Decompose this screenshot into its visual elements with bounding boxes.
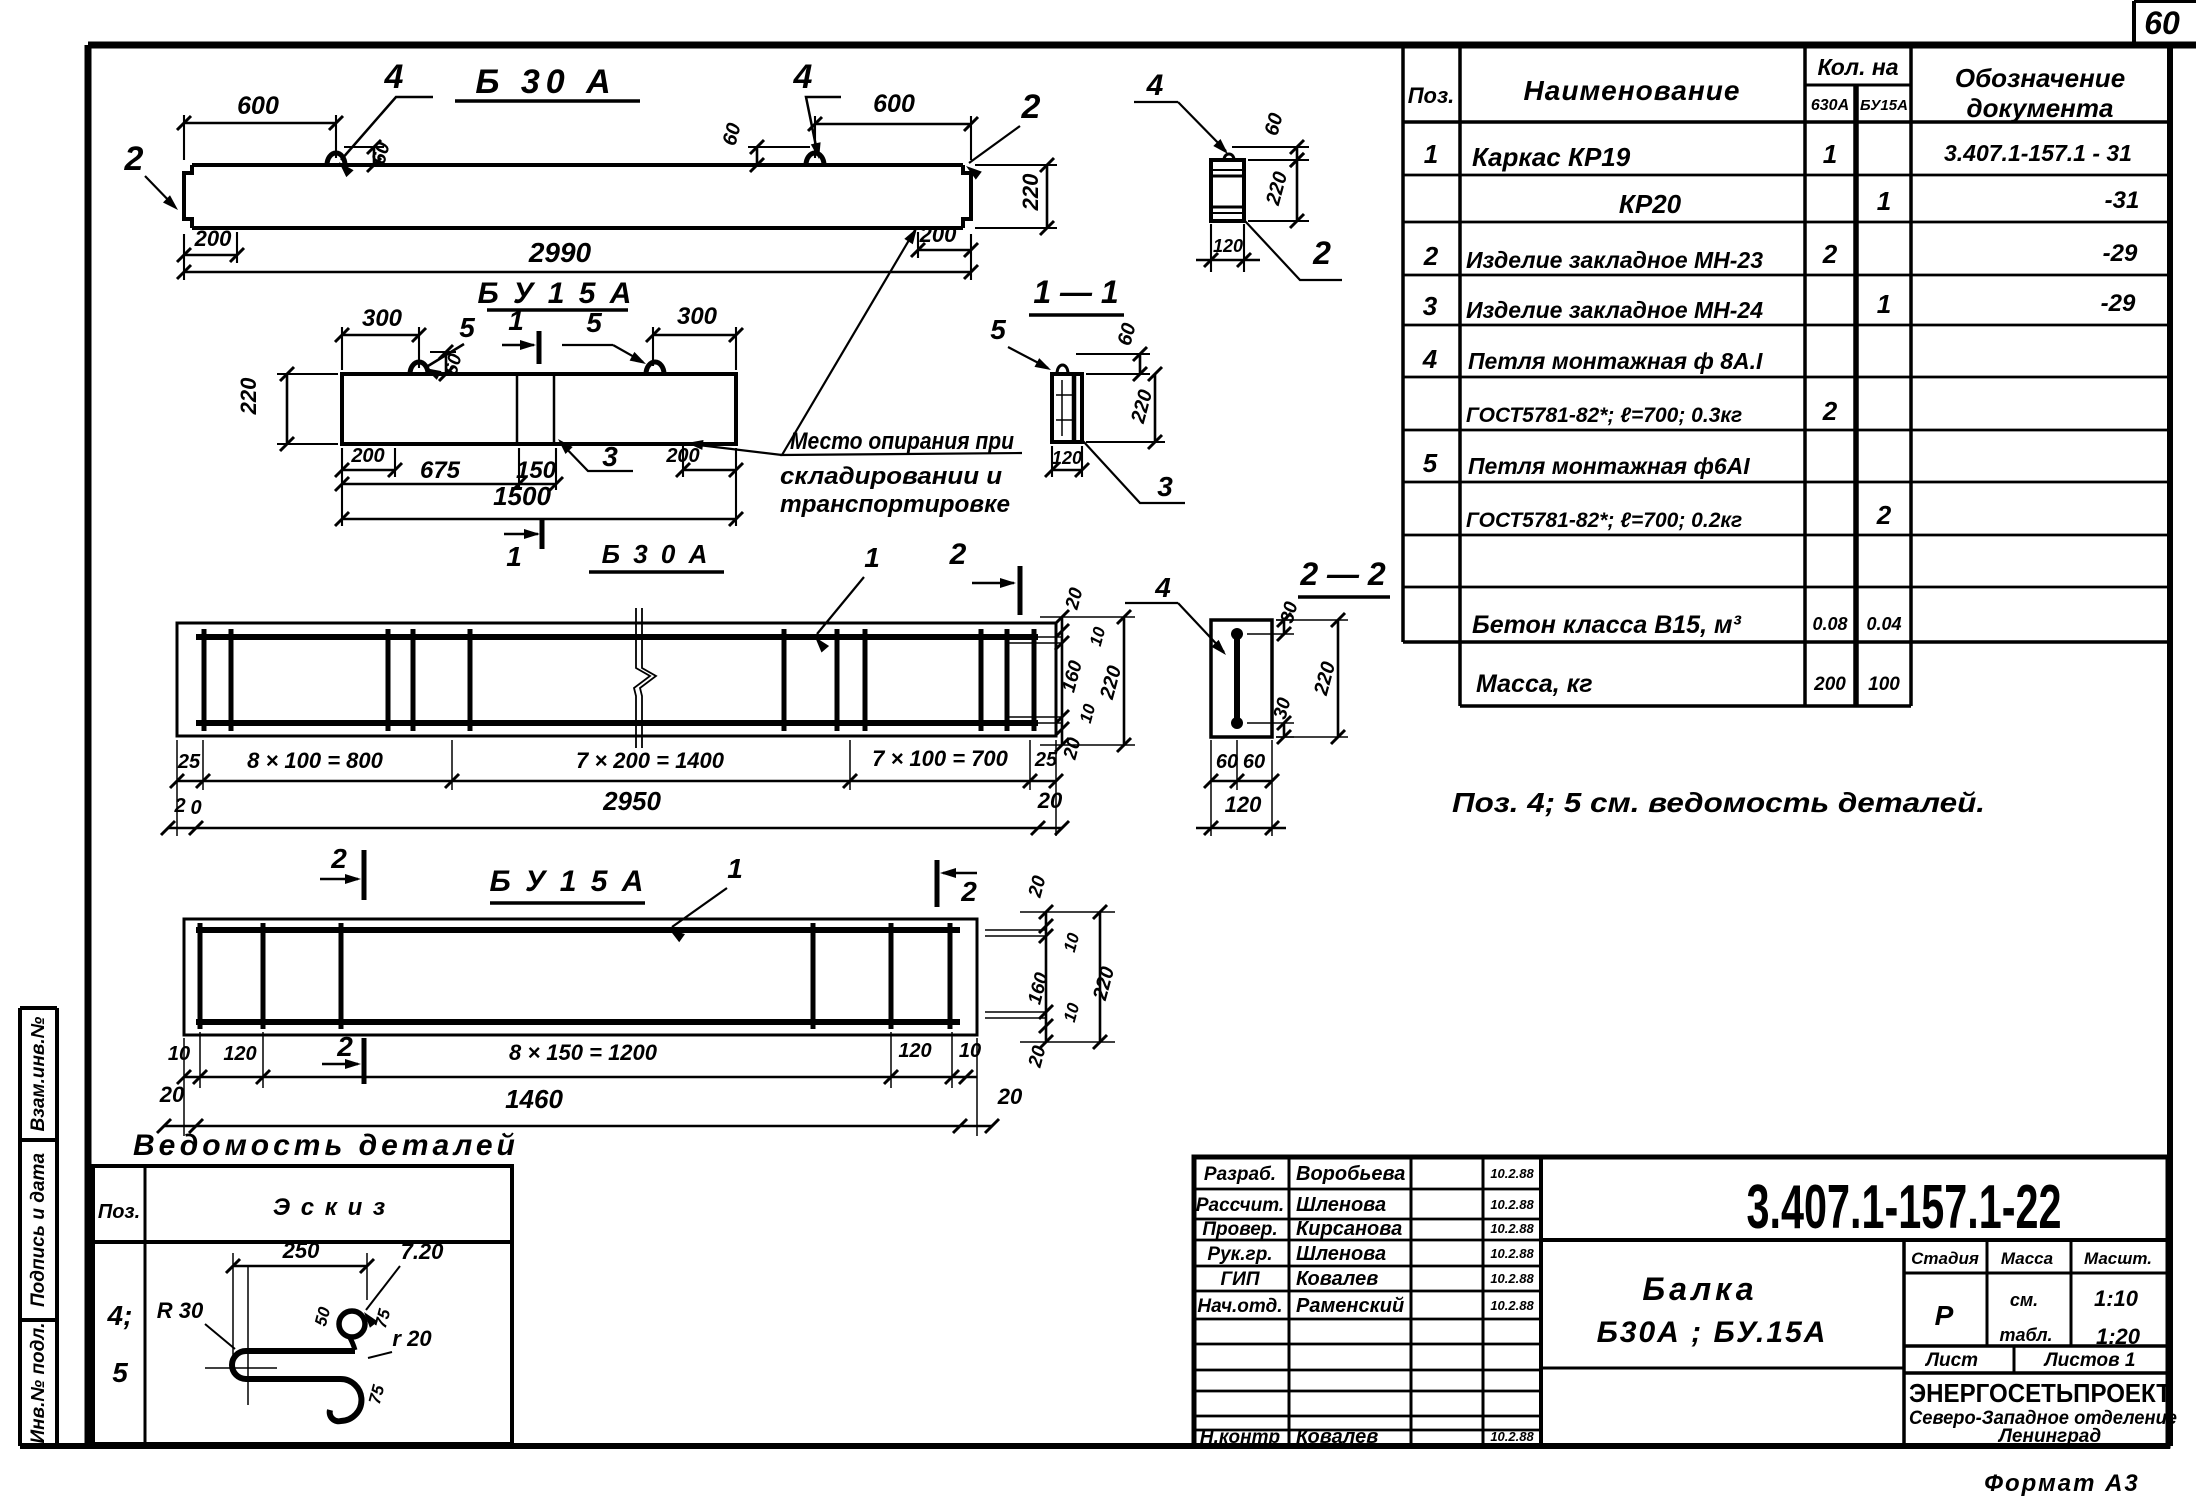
title block vertical stage block	[1902, 1240, 1906, 1446]
svg-text:10.2.88: 10.2.88	[1490, 1166, 1534, 1181]
page number box top-right	[2134, 0, 2196, 3]
lifting loop 4 (right) on Б30А	[806, 153, 824, 165]
svg-text:Масшт.: Масшт.	[2084, 1249, 2152, 1268]
section Б30А end (small rect top-right)	[1211, 160, 1244, 221]
title block row line 9	[1194, 1415, 1541, 1418]
list row bottom line	[1904, 1371, 2168, 1375]
spec table vertical: left edge	[1401, 45, 1405, 642]
svg-text:5: 5	[586, 307, 602, 338]
svg-text:100: 100	[1868, 674, 1900, 695]
svg-text:1: 1	[864, 542, 880, 573]
svg-text:7 × 200 = 1400: 7 × 200 = 1400	[576, 748, 725, 773]
svg-text:Э с к и з: Э с к и з	[273, 1194, 387, 1221]
list row divider	[2013, 1346, 2016, 1373]
svg-text:транспортировке: транспортировке	[780, 491, 1010, 518]
beam БУ15А outline (side view)	[342, 374, 736, 444]
sketch centerline horizontal	[205, 1367, 277, 1369]
svg-text:2: 2	[1423, 241, 1439, 271]
svg-text:200: 200	[1813, 674, 1846, 695]
svg-text:Б 30 А: Б 30 А	[475, 63, 616, 101]
svg-text:Бетон класса В15, м³: Бетон класса В15, м³	[1472, 611, 1741, 639]
left strip: divider 2	[20, 1318, 57, 1322]
svg-text:2 — 2: 2 — 2	[1299, 556, 1386, 592]
svg-text:Рассчит.: Рассчит.	[1196, 1195, 1284, 1216]
svg-text:2: 2	[330, 843, 347, 874]
svg-text:2: 2	[1021, 88, 1041, 126]
svg-text:Кирсанова: Кирсанова	[1296, 1218, 1402, 1240]
section 2-2 body	[1211, 620, 1272, 737]
top bar of cage КР19	[196, 634, 1038, 640]
vedomost table frame	[93, 1166, 512, 1444]
svg-text:Шленова: Шленова	[1296, 1194, 1386, 1216]
svg-text:Формат А3: Формат А3	[1984, 1470, 2140, 1497]
title block vertical date end	[1539, 1157, 1543, 1446]
svg-text:-29: -29	[2103, 240, 2138, 267]
sketch centerline vertical	[247, 1267, 249, 1405]
svg-text:10.2.88: 10.2.88	[1490, 1197, 1534, 1212]
svg-text:Лист: Лист	[1924, 1350, 1978, 1371]
svg-text:60: 60	[1216, 751, 1238, 773]
spec table row line 7	[1403, 481, 2170, 484]
svg-text:8 × 150 = 1200: 8 × 150 = 1200	[509, 1040, 658, 1065]
svg-text:Изделие закладное МН-24: Изделие закладное МН-24	[1466, 297, 1763, 323]
svg-text:4: 4	[793, 58, 813, 96]
note underline shelf	[780, 453, 1022, 455]
svg-text:Разраб.: Разраб.	[1204, 1164, 1276, 1185]
svg-text:Взам.инв.№: Взам.инв.№	[28, 1016, 49, 1131]
svg-text:4;: 4;	[107, 1300, 133, 1331]
svg-text:Воробьева: Воробьева	[1296, 1163, 1405, 1185]
svg-text:1: 1	[727, 853, 743, 884]
stirrups КР20	[198, 923, 203, 1029]
svg-text:10.2.88: 10.2.88	[1490, 1271, 1534, 1286]
svg-text:Н.контр: Н.контр	[1200, 1427, 1280, 1448]
svg-text:ГОСТ5781-82*; ℓ=700; 0.2кг: ГОСТ5781-82*; ℓ=700; 0.2кг	[1466, 509, 1742, 532]
svg-text:2: 2	[949, 538, 967, 571]
svg-text:7.20: 7.20	[401, 1239, 445, 1264]
svg-text:Петля монтажная ф6АI: Петля монтажная ф6АI	[1468, 453, 1750, 479]
svg-text:20: 20	[1037, 788, 1063, 813]
svg-text:1:10: 1:10	[2094, 1286, 2139, 1311]
svg-text:1: 1	[1823, 139, 1837, 169]
svg-text:Б30А ; БУ.15А: Б30А ; БУ.15А	[1597, 1316, 1828, 1349]
lifting loop 5 (left) on БУ15А	[410, 362, 428, 374]
svg-text:Подпись и дата: Подпись и дата	[28, 1153, 49, 1307]
svg-text:4: 4	[384, 58, 404, 96]
svg-text:3.407.1-157.1 - 31: 3.407.1-157.1 - 31	[1944, 140, 2132, 166]
title block row line 4	[1194, 1290, 1541, 1293]
svg-text:1: 1	[1877, 186, 1891, 216]
svg-text:4: 4	[1422, 344, 1438, 374]
svg-text:1: 1	[506, 541, 522, 572]
svg-text:120: 120	[898, 1040, 931, 1062]
svg-text:2: 2	[1876, 500, 1892, 530]
svg-text:0.08: 0.08	[1812, 614, 1847, 634]
svg-text:Изделие закладное МН-23: Изделие закладное МН-23	[1466, 247, 1763, 273]
svg-text:1: 1	[508, 305, 524, 336]
svg-text:120: 120	[223, 1043, 256, 1065]
leader to Б30А support point	[782, 230, 915, 455]
svg-text:25: 25	[177, 751, 201, 773]
svg-text:200: 200	[350, 445, 384, 467]
title block row line 10	[1194, 1429, 1541, 1432]
svg-text:1500: 1500	[493, 481, 551, 511]
spec table row line 10	[1403, 640, 2170, 644]
svg-text:Ковалев: Ковалев	[1296, 1426, 1378, 1448]
svg-text:7 × 100 = 700: 7 × 100 = 700	[872, 746, 1009, 771]
stage header line	[1904, 1272, 2168, 1275]
svg-text:1460: 1460	[505, 1084, 563, 1114]
svg-text:Ковалев: Ковалев	[1296, 1268, 1378, 1290]
svg-text:Инв.№ подл.: Инв.№ подл.	[28, 1322, 49, 1443]
svg-text:300: 300	[362, 305, 403, 332]
title block row line 2	[1194, 1239, 1541, 1242]
svg-text:2: 2	[173, 795, 185, 817]
bottom bar of cage КР19	[196, 720, 1038, 726]
svg-text:ГИП: ГИП	[1221, 1269, 1260, 1290]
svg-text:Рук.гр.: Рук.гр.	[1207, 1244, 1272, 1265]
left strip: outer line	[18, 1008, 22, 1446]
svg-text:5: 5	[459, 312, 475, 343]
spec table row line 2	[1403, 221, 2170, 224]
svg-text:Б У 1 5 А: Б У 1 5 А	[490, 865, 647, 898]
svg-text:Б У 1 5 А: Б У 1 5 А	[478, 277, 635, 310]
title block vertical sign/date	[1482, 1157, 1485, 1446]
top bar of cage КР20	[196, 927, 960, 933]
sheet frame: bottom border	[20, 1443, 2170, 1449]
svg-text:3.407.1-157.1-22: 3.407.1-157.1-22	[1747, 1173, 2062, 1242]
svg-text:1: 1	[1877, 289, 1891, 319]
svg-text:5: 5	[990, 314, 1006, 345]
svg-text:120: 120	[1225, 792, 1262, 817]
svg-text:1 — 1: 1 — 1	[1033, 274, 1118, 310]
stirrups КР19	[202, 629, 207, 731]
spec table bottom of Масса row	[1460, 704, 1911, 708]
svg-text:675: 675	[420, 457, 461, 484]
svg-text:220: 220	[236, 377, 261, 415]
svg-text:Поз.: Поз.	[1408, 83, 1455, 108]
svg-text:10.2.88: 10.2.88	[1490, 1429, 1534, 1444]
svg-text:4: 4	[1146, 69, 1164, 102]
svg-text:630А: 630А	[1811, 97, 1849, 114]
svg-text:200: 200	[194, 226, 232, 251]
svg-text:8 × 100 = 800: 8 × 100 = 800	[247, 748, 384, 773]
svg-text:1: 1	[1424, 139, 1438, 169]
title block vertical name/sign	[1410, 1157, 1413, 1446]
lifting loop 5 (right) on БУ15А	[646, 362, 664, 374]
svg-text:20: 20	[159, 1082, 185, 1107]
title block outer frame	[1194, 1157, 2168, 1446]
svg-text:5: 5	[1423, 448, 1438, 478]
svg-text:ГОСТ5781-82*; ℓ=700; 0.3кг: ГОСТ5781-82*; ℓ=700; 0.3кг	[1466, 404, 1742, 427]
svg-text:3: 3	[1423, 291, 1438, 321]
svg-text:60: 60	[1243, 751, 1265, 773]
svg-text:документа: документа	[1967, 93, 2114, 123]
svg-text:КР20: КР20	[1619, 189, 1682, 219]
svg-text:2: 2	[1822, 396, 1838, 426]
svg-text:ЭНЕРГОСЕТЬПРОЕКТ: ЭНЕРГОСЕТЬПРОЕКТ	[1909, 1378, 2171, 1408]
svg-text:-31: -31	[2105, 187, 2140, 214]
sheet frame: top border	[88, 42, 2196, 49]
break symbol	[634, 608, 656, 748]
spec table row line 3	[1403, 274, 2170, 277]
svg-text:220: 220	[1018, 173, 1043, 211]
svg-text:250: 250	[282, 1238, 320, 1263]
svg-text:складировании и: складировании и	[780, 463, 1002, 490]
svg-text:2: 2	[124, 140, 144, 178]
stage vertical 2	[2070, 1240, 2073, 1346]
svg-text:Кол. на: Кол. на	[1817, 54, 1898, 80]
vedomost header line	[93, 1240, 512, 1244]
leader to БУ15А support point	[690, 444, 782, 455]
spec table vertical: Поз/Наименование	[1458, 45, 1462, 706]
title block row line 1	[1194, 1218, 1541, 1221]
svg-text:r 20: r 20	[392, 1326, 432, 1351]
svg-text:Наименование: Наименование	[1524, 75, 1741, 106]
svg-text:см.: см.	[2010, 1290, 2038, 1310]
title block row line 6	[1194, 1343, 1541, 1346]
svg-text:0.04: 0.04	[1866, 614, 1901, 634]
spec table line: Кол.на split	[1805, 84, 1911, 87]
svg-text:Нач.отд.: Нач.отд.	[1197, 1296, 1282, 1317]
spec table row line 6	[1403, 429, 2170, 432]
title block row line 5	[1194, 1318, 1541, 1321]
spec table vertical: Наим/Кол	[1803, 45, 1807, 706]
svg-text:Масса, кг: Масса, кг	[1476, 670, 1593, 698]
svg-text:Обозначение: Обозначение	[1955, 63, 2125, 93]
section 1-1 body	[1052, 374, 1082, 442]
svg-text:Балка: Балка	[1642, 1271, 1757, 1307]
title block row line 0	[1194, 1188, 1541, 1191]
svg-text:Масса: Масса	[2001, 1249, 2053, 1268]
vedomost Поз divider	[144, 1166, 147, 1444]
name cell line bottom	[1541, 1367, 1904, 1370]
svg-text:0: 0	[190, 797, 201, 819]
title block vertical role/name	[1288, 1157, 1291, 1446]
svg-text:25: 25	[1034, 749, 1058, 771]
svg-text:Поз.: Поз.	[98, 1201, 140, 1223]
beam Б30А outline (side view)	[184, 165, 971, 228]
list row line	[1904, 1344, 2168, 1348]
left strip: inner line	[55, 1008, 59, 1446]
beam Б30А outline (cage view)	[177, 623, 1056, 736]
sketch loop bar	[232, 1351, 361, 1421]
doc number cell line	[1541, 1238, 2168, 1242]
svg-text:БУ15А: БУ15А	[1860, 97, 1908, 114]
svg-text:3: 3	[602, 441, 618, 472]
joint lines МН-24 mid plate	[516, 374, 519, 444]
svg-text:Провер.: Провер.	[1202, 1219, 1277, 1240]
beam БУ15А outline (cage view)	[184, 919, 977, 1035]
spec table vertical: 630А/БУ15А split	[1853, 85, 1859, 706]
svg-text:Шленова: Шленова	[1296, 1243, 1386, 1265]
svg-text:Стадия: Стадия	[1911, 1249, 1979, 1268]
svg-text:600: 600	[873, 90, 915, 118]
lifting loop 4 (left) on Б30А	[327, 153, 345, 165]
svg-text:Ленинград: Ленинград	[1997, 1426, 2101, 1447]
stage vertical 1	[1986, 1240, 1989, 1346]
bottom bar of cage КР20	[196, 1019, 960, 1025]
svg-text:10.2.88: 10.2.88	[1490, 1298, 1534, 1313]
svg-text:2: 2	[1822, 239, 1838, 269]
svg-text:5: 5	[112, 1357, 128, 1388]
svg-text:Каркас КР19: Каркас КР19	[1472, 142, 1631, 172]
svg-text:10: 10	[168, 1043, 190, 1065]
svg-text:Поз. 4; 5 см. ведомость детале: Поз. 4; 5 см. ведомость деталей.	[1452, 787, 1985, 818]
svg-text:20: 20	[997, 1084, 1023, 1109]
svg-text:10: 10	[959, 1040, 981, 1062]
left strip: divider 1	[20, 1138, 57, 1142]
spec table row line 9	[1403, 586, 2170, 589]
svg-text:-29: -29	[2101, 290, 2136, 317]
spec table row line 4	[1403, 324, 2170, 327]
svg-text:2: 2	[1312, 235, 1331, 271]
title block row line 7	[1194, 1369, 1541, 1372]
left strip: top cap	[20, 1006, 57, 1010]
svg-text:Место опирания при: Место опирания при	[790, 428, 1014, 455]
svg-text:2: 2	[336, 1031, 353, 1062]
svg-text:60: 60	[2144, 5, 2180, 41]
svg-text:Листов 1: Листов 1	[2043, 1350, 2136, 1371]
svg-text:3: 3	[1157, 471, 1173, 502]
title block row line 3	[1194, 1265, 1541, 1268]
spec table row line 8	[1403, 534, 2170, 537]
svg-text:R 30: R 30	[157, 1298, 204, 1323]
spec table row line 1	[1403, 174, 2170, 177]
sketch loop eye	[339, 1311, 365, 1337]
svg-text:2990: 2990	[528, 237, 592, 268]
sheet frame: left border	[85, 45, 92, 1446]
sheet frame: right border	[2167, 45, 2173, 1446]
svg-text:2950: 2950	[602, 786, 661, 816]
svg-text:4: 4	[1154, 572, 1171, 603]
svg-text:10.2.88: 10.2.88	[1490, 1246, 1534, 1261]
svg-text:Раменский: Раменский	[1296, 1295, 1404, 1317]
spec table row line 5	[1403, 376, 2170, 379]
svg-text:Петля монтажная ф 8А.I: Петля монтажная ф 8А.I	[1468, 348, 1763, 374]
svg-text:Б 3 0 А: Б 3 0 А	[602, 539, 711, 569]
svg-text:Р: Р	[1935, 1300, 1954, 1331]
svg-text:2: 2	[960, 876, 977, 907]
spec table vertical: Кол/Обозначение	[1909, 45, 1913, 706]
svg-text:300: 300	[677, 303, 718, 330]
svg-text:10.2.88: 10.2.88	[1490, 1221, 1534, 1236]
svg-text:табл.: табл.	[1999, 1325, 2052, 1345]
spec table row line 0	[1403, 120, 2170, 124]
title block row line 8	[1194, 1390, 1541, 1393]
svg-text:Ведомость деталей: Ведомость деталей	[133, 1129, 519, 1162]
svg-text:600: 600	[237, 92, 279, 120]
